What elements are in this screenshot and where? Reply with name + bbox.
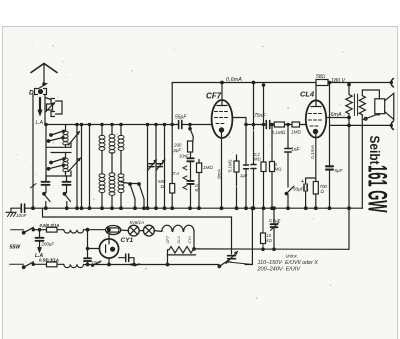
cathode CF7 <box>219 128 223 132</box>
wire ext speaker line <box>330 124 391 126</box>
wire secondary top to speaker <box>362 90 379 99</box>
svg-text:+: + <box>301 179 304 185</box>
svg-text:0,1MΩ: 0,1MΩ <box>272 130 286 135</box>
node 180V junction <box>348 83 351 86</box>
resistor 200 ohm cathode <box>313 182 318 195</box>
wire rail h <box>190 125 193 142</box>
wire below socket <box>44 95 46 125</box>
capacitor 55pF <box>179 121 182 129</box>
svg-text:10µF: 10µF <box>92 260 102 265</box>
switch S14 row2 <box>92 261 101 266</box>
capacitor 75nF <box>266 121 269 129</box>
wire speaker rail down <box>361 120 363 208</box>
cathode CY1 <box>111 247 115 251</box>
svg-text:5V6/1A: 5V6/1A <box>130 220 144 225</box>
wire rail a <box>76 125 78 209</box>
switch S1b <box>49 138 64 142</box>
connector ext bottom <box>391 121 393 130</box>
trimmer capacitor Cb <box>157 164 162 167</box>
svg-text:200–240V· E/UIV: 200–240V· E/UIV <box>256 267 300 273</box>
svg-text:Ω: Ω <box>321 189 325 194</box>
transformer core <box>354 94 357 116</box>
wire screen rail <box>253 83 255 209</box>
resistor 1M grid <box>292 122 300 127</box>
fuse F2 <box>47 262 58 267</box>
svg-text:CF7: CF7 <box>165 235 170 243</box>
switch S8 <box>190 129 193 137</box>
coil T1 winding B top <box>109 134 115 138</box>
transformer primary <box>346 83 352 126</box>
spark gap tick on earth rail <box>31 184 37 188</box>
capacitor 5uF <box>326 166 333 169</box>
wire row2 <box>84 264 219 266</box>
wire plate rail2 <box>263 85 265 208</box>
svg-text:200µF: 200µF <box>41 241 55 246</box>
capacitor 10nF right <box>63 181 71 183</box>
wire winding tops <box>102 125 121 136</box>
resistor 200uuF block <box>188 141 193 152</box>
svg-text:0,6mA: 0,6mA <box>226 77 242 83</box>
anode CY1 <box>108 239 110 244</box>
switch S2a <box>51 159 64 163</box>
svg-text:1nF: 1nF <box>291 147 301 153</box>
svg-text:1MΩ: 1MΩ <box>203 165 213 170</box>
svg-text:CY1: CY1 <box>187 236 192 244</box>
switch S4 <box>64 194 71 202</box>
coil L1 band 1 <box>63 131 68 134</box>
wire bank2 bottom <box>46 171 71 176</box>
jack fork 1 <box>183 166 187 170</box>
switch S2b <box>49 165 64 169</box>
wire switch stub <box>121 182 139 184</box>
svg-text:10nF: 10nF <box>16 213 28 218</box>
anode CL4 <box>311 83 321 107</box>
resistor 0.1M grid <box>274 122 284 127</box>
capacitor 10nF left <box>42 181 50 183</box>
capacitor 50uF cathode <box>304 184 307 191</box>
switch S6 wave band <box>139 184 144 199</box>
fuse F1 <box>47 227 58 232</box>
svg-text:Ω: Ω <box>161 184 164 189</box>
wire 1uF rail <box>245 125 247 209</box>
wire top-left corner drop <box>171 83 173 125</box>
wire grid CF7 out <box>232 118 246 125</box>
wire 1M leads <box>198 160 200 209</box>
svg-text:MΩ: MΩ <box>254 157 261 162</box>
wire grid coupling line <box>246 124 306 126</box>
svg-text:0,1mA: 0,1mA <box>310 145 316 159</box>
wire bank1 bottom <box>46 143 71 147</box>
node coupling junctions <box>245 123 247 125</box>
wire heater end drop <box>193 231 195 249</box>
grid CL4 dashes <box>309 113 322 115</box>
lamp dial <box>106 226 121 235</box>
node row1 junction <box>86 228 89 231</box>
svg-text:75nF: 75nF <box>254 113 266 119</box>
coil antenna trimmer <box>47 104 53 110</box>
resistor 1M <box>197 163 202 173</box>
trimmer capacitor Ca <box>149 164 154 167</box>
wire heater sub line <box>43 208 232 217</box>
resistor 0.1M anode <box>234 161 239 172</box>
coil L2 band 2 <box>63 158 68 161</box>
svg-text:50µF: 50µF <box>293 187 305 192</box>
speaker <box>375 99 385 114</box>
svg-text:CL4: CL4 <box>300 90 315 99</box>
wire B- drop right <box>348 125 350 249</box>
svg-text:1µF: 1µF <box>240 173 248 178</box>
wire row1 drop to row2 <box>87 230 89 265</box>
capacitor 10nF mains <box>21 204 24 212</box>
ground <box>10 208 12 212</box>
svg-text:0,1MΩ: 0,1MΩ <box>228 159 233 172</box>
switch S1a <box>51 131 64 135</box>
wire left rail <box>45 125 47 182</box>
switch antenna selector <box>39 84 48 89</box>
switch S12 mains b <box>24 262 34 268</box>
grid CF7 dashes <box>215 111 228 113</box>
resistor 10k <box>261 233 266 244</box>
wire socket loop <box>56 101 63 114</box>
wire winding bottoms <box>102 193 121 208</box>
tube CY1 envelope <box>99 239 118 258</box>
coil T1 winding A bottom <box>99 174 105 178</box>
resistor 58 ohm <box>316 80 328 86</box>
wire chassis bus <box>25 207 363 209</box>
switch S3 <box>44 194 51 202</box>
jack fork 2 <box>183 176 187 180</box>
switch S13 selector <box>219 260 228 266</box>
wire selector to corner <box>228 262 252 265</box>
wire B- rail <box>196 248 349 250</box>
capacitor selector tap <box>228 256 236 259</box>
barretter underline <box>167 254 195 256</box>
svg-text:5µF: 5µF <box>335 168 344 173</box>
wire barretter left drop <box>168 250 170 265</box>
svg-text:D: D <box>29 90 34 97</box>
wire main grid line <box>45 124 212 126</box>
svg-text:9mA: 9mA <box>217 169 223 179</box>
transformer secondary <box>359 96 365 115</box>
switch S5 wave band <box>130 184 135 199</box>
tube CF7 envelope <box>212 100 233 138</box>
resistor barretter zigzag <box>169 247 194 253</box>
capacitor 50uF CY1 right <box>126 254 129 262</box>
socket C upper <box>51 99 55 104</box>
wire bank2 top <box>51 152 71 154</box>
heater CF7 <box>162 225 172 231</box>
capacitor 200uF <box>36 238 44 241</box>
trimmer arrow L2 <box>69 158 81 172</box>
wire below block <box>190 152 192 208</box>
node bus junctions <box>45 207 48 210</box>
heater CY1 <box>184 225 194 231</box>
svg-text:1MΩ: 1MΩ <box>291 130 301 135</box>
svg-text:0,5/0,3/1A: 0,5/0,3/1A <box>40 223 60 228</box>
wire CY1 bottom <box>108 258 110 264</box>
wire bus end drop <box>361 207 363 209</box>
wire coil L1 top <box>65 125 67 132</box>
capacitor 10nF upper <box>187 158 193 161</box>
svg-text:180 V: 180 V <box>331 78 346 84</box>
resistor 0.2M <box>261 162 266 172</box>
capacitor 0.5uF <box>271 224 278 227</box>
anode CF7 <box>217 83 227 106</box>
coil choke1 <box>64 230 84 233</box>
capacitor 1nF <box>285 149 291 153</box>
wire top bus 180V line <box>172 82 391 84</box>
wire rail d <box>147 125 149 209</box>
capacitor 10uF CY1 rail <box>84 258 91 261</box>
connector ext top <box>391 79 393 88</box>
coil T2 winding C bottom <box>118 174 124 178</box>
svg-text:0,5µF: 0,5µF <box>269 218 281 223</box>
wire rail g <box>171 125 173 209</box>
wire CL4 plate out <box>326 117 349 119</box>
trimmer arrow L1 <box>69 132 80 146</box>
svg-text:kΩ: kΩ <box>267 238 272 243</box>
wire selector drop <box>231 217 233 254</box>
socket C lower <box>51 112 55 117</box>
svg-text:110–150V· E/UVII oder X: 110–150V· E/UVII oder X <box>258 260 319 266</box>
lamp ballast 1 <box>128 225 139 236</box>
svg-text:T.A: T.A <box>173 171 180 176</box>
svg-text:CL4: CL4 <box>176 236 181 244</box>
resistor 500 ohm <box>170 184 175 194</box>
antenna <box>31 64 57 73</box>
switch S9 <box>286 186 294 194</box>
svg-text:CY1: CY1 <box>121 237 134 244</box>
wire rail c <box>89 125 91 209</box>
tube CL4 envelope <box>306 100 326 137</box>
svg-text:55pF: 55pF <box>175 115 187 121</box>
coil T1 winding B bottom <box>109 173 115 177</box>
svg-text:Urdox: Urdox <box>286 254 298 259</box>
svg-text:MΩ: MΩ <box>275 167 282 172</box>
wire rail e <box>155 125 157 209</box>
coil choke2 <box>64 264 84 267</box>
node main line junctions <box>45 123 47 125</box>
arrester L.A <box>39 98 41 111</box>
wire 180V drop rail <box>329 83 331 209</box>
svg-text:µµF: µµF <box>174 148 182 153</box>
capacitor 10nF lower <box>187 181 193 184</box>
lamp ballast 2 <box>144 225 155 236</box>
svg-text:50µF: 50µF <box>130 262 140 267</box>
svg-text:L.A: L.A <box>36 120 44 126</box>
svg-text:55W: 55W <box>10 245 22 251</box>
wire cathode CL4 down <box>310 133 316 179</box>
cathode CL4 <box>313 129 317 133</box>
coil T1 winding A top <box>99 135 105 139</box>
wire rail i <box>271 125 273 209</box>
wire rail f <box>164 125 166 209</box>
capacitor 1uF <box>244 165 249 169</box>
wire winding middles <box>102 151 121 174</box>
coil T2 winding C top <box>118 135 124 139</box>
wire stub to sockets <box>45 98 51 100</box>
svg-text:CF7: CF7 <box>206 92 222 101</box>
svg-text:161 GW: 161 GW <box>362 165 391 213</box>
svg-text:nF: nF <box>195 187 200 192</box>
wire CY1 top <box>108 234 110 239</box>
wire 1nF rail <box>287 125 289 209</box>
wire rail b <box>81 125 83 209</box>
jack fork 3 <box>183 186 187 190</box>
wire D socket earth rail <box>32 95 34 209</box>
svg-text:L.A: L.A <box>35 253 43 259</box>
node anode junction <box>221 81 224 84</box>
resistor 5M <box>270 162 275 172</box>
svg-text:10nF: 10nF <box>179 153 189 158</box>
wire antenna lead-in <box>43 64 45 84</box>
arrow selector <box>226 252 238 264</box>
wire CY1 left <box>88 248 100 250</box>
svg-text:6mA: 6mA <box>331 112 342 118</box>
node ext line <box>348 124 351 127</box>
switch S11 mains a <box>24 227 34 233</box>
switch S10 speaker <box>362 114 379 120</box>
heater CL4 <box>173 225 183 231</box>
antenna socket D <box>35 89 38 95</box>
capacitor screen <box>251 165 256 169</box>
svg-text:Seibt: Seibt <box>367 136 383 166</box>
